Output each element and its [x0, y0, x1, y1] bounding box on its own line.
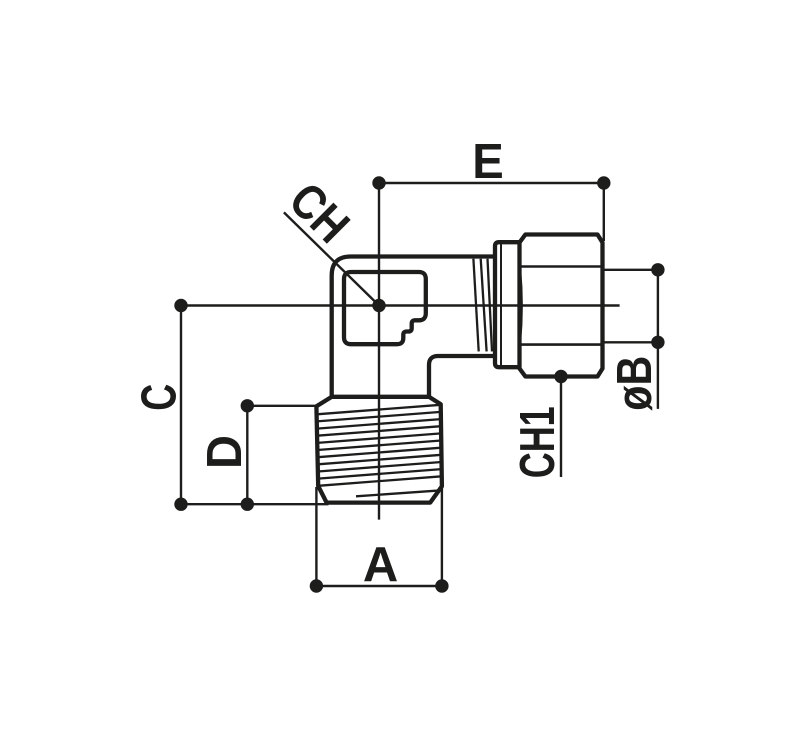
svg-text:E: E [472, 135, 504, 189]
svg-text:C: C [132, 384, 186, 411]
svg-text:CH1: CH1 [511, 406, 565, 478]
svg-text:A: A [363, 538, 398, 592]
svg-text:øB: øB [608, 356, 662, 411]
svg-text:D: D [198, 435, 252, 469]
